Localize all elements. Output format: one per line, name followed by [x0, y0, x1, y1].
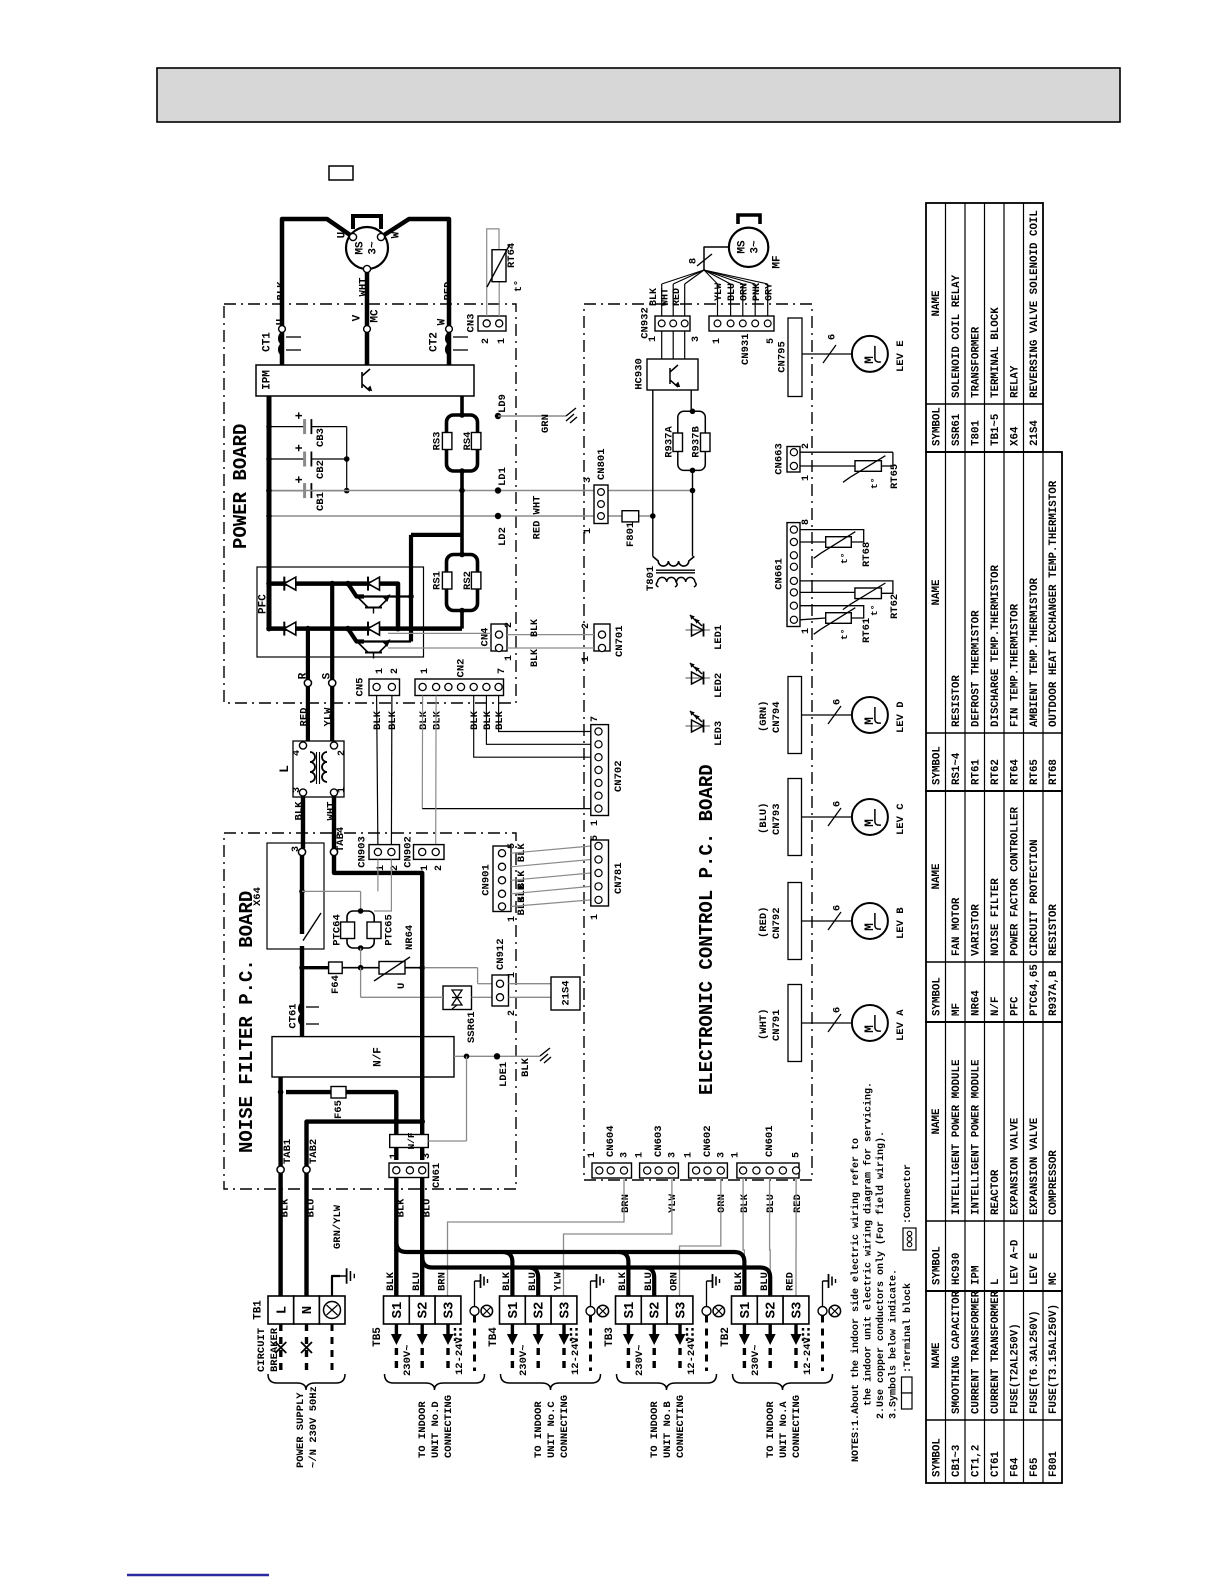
- svg-text:PTC64: PTC64: [331, 914, 343, 946]
- svg-text:R937B: R937B: [690, 426, 702, 458]
- svg-text:TB4: TB4: [488, 1327, 500, 1347]
- svg-text:CB1: CB1: [315, 492, 327, 511]
- svg-text:RT65: RT65: [1029, 759, 1041, 785]
- svg-text:3~: 3~: [368, 241, 380, 255]
- svg-text:UNIT No.D: UNIT No.D: [430, 1401, 442, 1458]
- svg-text:BLK: BLK: [432, 710, 444, 730]
- svg-text:MC: MC: [1048, 1272, 1060, 1285]
- svg-text:INTELLIGENT POWER MODULE: INTELLIGENT POWER MODULE: [951, 1059, 963, 1215]
- svg-text:CN902: CN902: [402, 836, 414, 868]
- svg-text:POWER FACTOR CONTROLLER: POWER FACTOR CONTROLLER: [1009, 806, 1021, 956]
- svg-text:N: N: [300, 1306, 316, 1314]
- svg-text:3: 3: [620, 1152, 631, 1158]
- svg-text:8: 8: [687, 258, 699, 264]
- svg-text:12-24V: 12-24V: [570, 1336, 582, 1375]
- svg-text:NOISE FILTER: NOISE FILTER: [990, 878, 1002, 956]
- svg-text:2.Use copper conductors only (: 2.Use copper conductors only (For field …: [875, 1131, 887, 1419]
- svg-text:6: 6: [831, 699, 843, 705]
- svg-text:YLW: YLW: [553, 1271, 565, 1291]
- svg-text:t°: t°: [869, 478, 880, 489]
- svg-text:RT68: RT68: [861, 542, 873, 567]
- svg-text:SYMBOL: SYMBOL: [931, 746, 943, 785]
- svg-text:BLU: BLU: [411, 1272, 423, 1291]
- svg-text:NAME: NAME: [931, 290, 943, 316]
- svg-text:21S4: 21S4: [1029, 420, 1041, 446]
- svg-text:SSR61: SSR61: [951, 413, 963, 446]
- svg-text:ORN: ORN: [740, 283, 751, 301]
- svg-text:V: V: [352, 314, 364, 321]
- svg-text:CN794: CN794: [771, 701, 783, 733]
- svg-text:IPM: IPM: [262, 370, 274, 390]
- svg-text:1: 1: [590, 820, 601, 826]
- svg-text:TERMINAL BLOCK: TERMINAL BLOCK: [990, 307, 1002, 398]
- svg-text:7: 7: [497, 668, 508, 674]
- svg-text:YLW: YLW: [714, 283, 725, 301]
- svg-text:F64: F64: [330, 975, 342, 994]
- svg-text:RED: RED: [672, 288, 683, 306]
- svg-text:LD2: LD2: [497, 527, 509, 546]
- svg-text:+: +: [292, 476, 307, 484]
- svg-text:CT2: CT2: [429, 332, 441, 352]
- svg-text:BLK: BLK: [372, 710, 384, 730]
- svg-text:6: 6: [831, 905, 843, 911]
- svg-text:RT61: RT61: [970, 759, 982, 785]
- svg-text:1: 1: [590, 914, 601, 920]
- svg-text:PFC: PFC: [258, 594, 270, 614]
- svg-text:F65: F65: [333, 1100, 345, 1119]
- svg-text:CN602: CN602: [702, 1125, 714, 1157]
- svg-text:S1: S1: [390, 1302, 406, 1319]
- svg-text:MF: MF: [951, 1003, 963, 1016]
- svg-text:S3: S3: [557, 1302, 573, 1319]
- svg-text:BLK: BLK: [494, 710, 506, 730]
- svg-text:CURRENT TRANSFORMER: CURRENT TRANSFORMER: [990, 1290, 1002, 1414]
- svg-text:TB3: TB3: [604, 1327, 616, 1347]
- svg-text:YLW: YLW: [322, 707, 334, 727]
- svg-text:CN702: CN702: [613, 760, 625, 792]
- svg-text:W: W: [391, 231, 403, 238]
- svg-text:POWER SUPPLY: POWER SUPPLY: [295, 1392, 307, 1468]
- svg-text:ORN: ORN: [669, 1272, 681, 1291]
- svg-text:X64: X64: [252, 887, 264, 906]
- svg-text:BLK: BLK: [649, 288, 660, 306]
- svg-text:FAN MOTOR: FAN MOTOR: [951, 897, 963, 956]
- svg-text:(RED): (RED): [758, 906, 770, 938]
- svg-text:TRANSFORMER: TRANSFORMER: [970, 326, 982, 398]
- svg-text:3~: 3~: [750, 240, 762, 254]
- svg-text:U: U: [396, 983, 408, 989]
- svg-text:TB5: TB5: [372, 1327, 384, 1347]
- svg-text:FIN TEMP.THERMISTOR: FIN TEMP.THERMISTOR: [1009, 603, 1021, 727]
- svg-text:SYMBOL: SYMBOL: [931, 977, 943, 1016]
- svg-text:LED1: LED1: [713, 625, 725, 650]
- svg-text:~/N 230V 50Hz: ~/N 230V 50Hz: [308, 1386, 320, 1468]
- svg-text:RT62: RT62: [990, 759, 1002, 785]
- svg-text:NAME: NAME: [931, 863, 943, 889]
- svg-text:FUSE(T6.3AL250V): FUSE(T6.3AL250V): [1029, 1310, 1041, 1414]
- svg-text:RT62: RT62: [889, 594, 901, 619]
- svg-text:2: 2: [434, 865, 445, 871]
- svg-text:CN792: CN792: [771, 907, 783, 939]
- svg-text:SYMBOL: SYMBOL: [931, 1246, 943, 1285]
- svg-text:GRN/YLW: GRN/YLW: [332, 1204, 344, 1249]
- svg-text:LEV E: LEV E: [895, 340, 907, 372]
- svg-text:NAME: NAME: [931, 1342, 943, 1368]
- svg-text:5: 5: [590, 835, 601, 841]
- svg-text:3: 3: [583, 477, 594, 483]
- svg-text:CN2: CN2: [455, 659, 467, 678]
- svg-text:CONNECTING: CONNECTING: [559, 1395, 571, 1458]
- svg-text:FUSE(T3.15AL250V): FUSE(T3.15AL250V): [1048, 1304, 1060, 1414]
- svg-text:TB2: TB2: [720, 1327, 732, 1347]
- svg-text:EXPANSION VALVE: EXPANSION VALVE: [1029, 1117, 1041, 1215]
- svg-text:1: 1: [684, 1152, 695, 1158]
- svg-text:CN781: CN781: [613, 862, 625, 894]
- svg-text:CN931: CN931: [740, 333, 752, 365]
- svg-text:U: U: [337, 232, 349, 239]
- svg-text:3: 3: [667, 1152, 678, 1158]
- svg-text:BRN: BRN: [437, 1272, 449, 1291]
- svg-text:RT65: RT65: [889, 464, 901, 489]
- svg-text:S3: S3: [789, 1302, 805, 1319]
- svg-text:1: 1: [507, 916, 518, 922]
- svg-text:FUSE(T2AL250V): FUSE(T2AL250V): [1009, 1323, 1021, 1414]
- svg-text:CIRCUIT PROTECTION: CIRCUIT PROTECTION: [1029, 839, 1041, 956]
- svg-text:LED2: LED2: [713, 673, 725, 698]
- svg-text:VARISTOR: VARISTOR: [970, 904, 982, 956]
- svg-text:1: 1: [635, 1152, 646, 1158]
- svg-text:N/F: N/F: [406, 1132, 417, 1149]
- svg-text:CN901: CN901: [480, 864, 492, 896]
- svg-text:TO INDOOR: TO INDOOR: [649, 1401, 661, 1458]
- svg-text:NAME: NAME: [931, 579, 943, 605]
- svg-text:LD1: LD1: [497, 467, 509, 486]
- svg-text:t°: t°: [839, 629, 850, 640]
- svg-text:L: L: [277, 765, 292, 773]
- svg-text:NR64: NR64: [404, 925, 416, 950]
- svg-text:PTC64,65: PTC64,65: [1029, 964, 1041, 1016]
- svg-text:TO INDOOR: TO INDOOR: [533, 1401, 545, 1458]
- svg-text:RS1~4: RS1~4: [951, 752, 963, 785]
- svg-text:CN4: CN4: [479, 628, 491, 647]
- svg-text:SMOOTHING CAPACITOR: SMOOTHING CAPACITOR: [951, 1290, 963, 1414]
- svg-text:CN5: CN5: [354, 678, 366, 697]
- svg-text:1: 1: [420, 668, 431, 674]
- svg-text:UNIT No.B: UNIT No.B: [662, 1401, 674, 1458]
- svg-text:F65: F65: [1029, 1458, 1041, 1477]
- svg-text:F801: F801: [1048, 1451, 1060, 1477]
- svg-text:INTELLIGENT POWER MODULE: INTELLIGENT POWER MODULE: [970, 1059, 982, 1215]
- svg-text:6: 6: [831, 801, 843, 807]
- svg-text:CB1~3: CB1~3: [951, 1445, 963, 1477]
- svg-text:2: 2: [581, 623, 592, 629]
- svg-text:t°: t°: [839, 553, 850, 564]
- svg-text:SYMBOL: SYMBOL: [931, 407, 943, 446]
- svg-text:CT1: CT1: [262, 332, 274, 352]
- svg-text:(GRN): (GRN): [758, 700, 770, 732]
- svg-text:U: U: [276, 319, 288, 326]
- svg-text:1: 1: [587, 1152, 598, 1158]
- svg-text:BLU: BLU: [765, 1194, 777, 1213]
- svg-text:1: 1: [389, 1153, 400, 1159]
- svg-text:DEFROST THERMISTOR: DEFROST THERMISTOR: [970, 610, 982, 727]
- svg-text:S1: S1: [622, 1302, 638, 1319]
- svg-text:BLU: BLU: [305, 1199, 317, 1218]
- svg-text:RED: RED: [792, 1194, 804, 1213]
- svg-text:TO INDOOR: TO INDOOR: [417, 1401, 429, 1458]
- svg-text:BLU: BLU: [759, 1272, 771, 1291]
- svg-text:TAB1: TAB1: [282, 1139, 294, 1164]
- svg-text:S3: S3: [673, 1302, 689, 1319]
- svg-text:CN701: CN701: [614, 625, 626, 657]
- svg-text:CN801: CN801: [596, 448, 608, 480]
- svg-text:the indoor unit electric wirin: the indoor unit electric wiring diagram …: [863, 1082, 875, 1406]
- svg-text:12-24V: 12-24V: [454, 1336, 466, 1375]
- svg-text:REACTOR: REACTOR: [990, 1169, 1002, 1215]
- svg-text:TO INDOOR: TO INDOOR: [765, 1401, 777, 1458]
- svg-text:HC930: HC930: [951, 1253, 963, 1285]
- svg-text:S2: S2: [416, 1302, 432, 1319]
- svg-text:LEV B: LEV B: [895, 907, 907, 939]
- svg-text:1: 1: [801, 475, 812, 481]
- svg-text:RS4: RS4: [462, 432, 474, 451]
- svg-text:CB2: CB2: [315, 460, 327, 479]
- svg-text:MF: MF: [772, 255, 784, 268]
- svg-text:230V~: 230V~: [518, 1344, 530, 1376]
- svg-text:1: 1: [504, 655, 515, 661]
- svg-text:BLK: BLK: [385, 1271, 397, 1291]
- svg-text:230V~: 230V~: [402, 1344, 414, 1376]
- svg-text:BLU: BLU: [643, 1272, 655, 1291]
- svg-text:S1: S1: [506, 1302, 522, 1319]
- svg-text:HC930: HC930: [633, 358, 645, 390]
- svg-text:S: S: [322, 672, 334, 679]
- svg-text:CONNECTING: CONNECTING: [443, 1395, 455, 1458]
- svg-text::Terminal block: :Terminal block: [902, 1283, 914, 1373]
- svg-text:BLK: BLK: [530, 649, 541, 667]
- svg-text:RT64: RT64: [1009, 759, 1021, 785]
- svg-text:1: 1: [801, 628, 812, 634]
- svg-text:CT61: CT61: [990, 1451, 1002, 1477]
- svg-text:RS2: RS2: [462, 571, 474, 590]
- svg-text:POWER BOARD: POWER BOARD: [230, 424, 252, 549]
- svg-text:BLK: BLK: [733, 1271, 745, 1291]
- svg-text:2: 2: [337, 750, 348, 756]
- svg-text:CURRENT TRANSFORMER: CURRENT TRANSFORMER: [970, 1290, 982, 1414]
- svg-text:BLK: BLK: [418, 710, 430, 730]
- svg-text:CN932: CN932: [639, 307, 651, 339]
- svg-text:BLK: BLK: [520, 1057, 532, 1077]
- svg-text:MS: MS: [355, 241, 367, 255]
- svg-text:TAB2: TAB2: [308, 1139, 320, 1164]
- svg-text:CIRCUIT: CIRCUIT: [256, 1328, 268, 1372]
- svg-text:1: 1: [337, 787, 348, 793]
- svg-text:NR64: NR64: [970, 990, 982, 1016]
- svg-text:2: 2: [507, 1010, 518, 1016]
- svg-text:t°: t°: [513, 280, 525, 292]
- svg-text:CT1,2: CT1,2: [970, 1445, 982, 1477]
- svg-text:LD9: LD9: [497, 394, 509, 413]
- svg-text:LEV D: LEV D: [895, 701, 907, 733]
- svg-text:1: 1: [375, 668, 386, 674]
- svg-text:SSR61: SSR61: [466, 1011, 478, 1043]
- svg-text:RESISTOR: RESISTOR: [1048, 904, 1060, 956]
- svg-text:AMBIENT TEMP.THERMISTOR: AMBIENT TEMP.THERMISTOR: [1029, 577, 1041, 727]
- svg-text:3: 3: [292, 787, 303, 793]
- svg-text:1: 1: [581, 656, 592, 662]
- svg-text:CN601: CN601: [764, 1125, 776, 1157]
- svg-text:BLK: BLK: [739, 1193, 751, 1213]
- svg-text:ORN: ORN: [716, 1194, 728, 1213]
- svg-text:RELAY: RELAY: [1009, 365, 1021, 398]
- svg-text:T801: T801: [970, 420, 982, 446]
- svg-text:2: 2: [504, 622, 515, 628]
- svg-text:L: L: [274, 1306, 290, 1314]
- svg-text:DISCHARGE TEMP.THERMISTOR: DISCHARGE TEMP.THERMISTOR: [990, 564, 1002, 727]
- svg-text:WHT: WHT: [531, 496, 543, 515]
- svg-text:RT64: RT64: [506, 243, 518, 268]
- svg-text:R: R: [298, 672, 310, 679]
- svg-text:BLK: BLK: [482, 710, 494, 730]
- svg-text:t°: t°: [869, 605, 880, 616]
- svg-text:UNIT No.C: UNIT No.C: [546, 1401, 558, 1458]
- svg-text:YLW: YLW: [667, 1193, 679, 1213]
- svg-text:RED: RED: [442, 282, 454, 301]
- svg-text:BLK: BLK: [530, 619, 541, 637]
- svg-text:GRY: GRY: [765, 283, 776, 301]
- svg-text:RS3: RS3: [431, 432, 443, 451]
- svg-text:RED: RED: [785, 1272, 797, 1291]
- svg-text:CN912: CN912: [495, 938, 507, 970]
- svg-text:3: 3: [422, 1153, 433, 1159]
- svg-text:T801: T801: [645, 566, 657, 591]
- svg-text:CN663: CN663: [773, 443, 785, 475]
- svg-text:6: 6: [826, 334, 838, 340]
- svg-text:CN903: CN903: [356, 836, 368, 868]
- svg-text:R937A: R937A: [663, 426, 675, 458]
- svg-text:BLK: BLK: [275, 281, 287, 301]
- svg-text:NOISE FILTER P.C. BOARD: NOISE FILTER P.C. BOARD: [236, 891, 258, 1153]
- svg-text:4: 4: [292, 750, 303, 756]
- svg-text:LEV C: LEV C: [895, 803, 907, 835]
- svg-text:BLK: BLK: [387, 710, 399, 730]
- svg-text:(BLU): (BLU): [758, 802, 770, 834]
- svg-text:S3: S3: [441, 1302, 457, 1319]
- svg-text:TAB4: TAB4: [335, 827, 347, 852]
- svg-text:7: 7: [590, 716, 601, 722]
- svg-text:N/F: N/F: [373, 1047, 385, 1067]
- svg-text:PFC: PFC: [1009, 996, 1021, 1016]
- svg-text:5: 5: [792, 1152, 803, 1158]
- svg-text:F64: F64: [1009, 1457, 1021, 1477]
- svg-text:PNK: PNK: [752, 283, 763, 301]
- svg-text:CB3: CB3: [315, 428, 327, 447]
- svg-text:WHT: WHT: [661, 288, 672, 306]
- svg-text:EXPANSION VALVE: EXPANSION VALVE: [1009, 1117, 1021, 1215]
- svg-text:TB1~5: TB1~5: [990, 414, 1002, 446]
- svg-text:TB1: TB1: [253, 1300, 265, 1320]
- svg-text:BLK: BLK: [501, 1271, 513, 1291]
- svg-text:NAME: NAME: [931, 1108, 943, 1134]
- svg-text:CN791: CN791: [771, 1009, 783, 1041]
- svg-text:ELECTRONIC CONTROL P.C. BOARD: ELECTRONIC CONTROL P.C. BOARD: [696, 764, 718, 1095]
- svg-text:L: L: [990, 1279, 1002, 1285]
- svg-text:S2: S2: [764, 1302, 780, 1319]
- svg-text:MS: MS: [737, 240, 749, 254]
- svg-text:S2: S2: [648, 1302, 664, 1319]
- svg-text:CN661: CN661: [773, 558, 785, 590]
- svg-text:CT61: CT61: [287, 1003, 299, 1028]
- svg-text:SOLENOID COIL RELAY: SOLENOID COIL RELAY: [951, 274, 963, 398]
- svg-text:(WHT): (WHT): [758, 1008, 770, 1040]
- svg-text:UNIT No.A: UNIT No.A: [778, 1401, 790, 1458]
- svg-text:3.Symbols below indicate.: 3.Symbols below indicate.: [888, 1269, 900, 1419]
- svg-text:LEV A: LEV A: [895, 1009, 907, 1041]
- svg-text:BLK: BLK: [617, 1271, 629, 1291]
- svg-text:R937A,B: R937A,B: [1048, 970, 1060, 1016]
- svg-text:SYMBOL: SYMBOL: [931, 1438, 943, 1477]
- svg-text:1: 1: [507, 972, 518, 978]
- svg-text:GRN: GRN: [540, 414, 552, 433]
- svg-text:RT68: RT68: [1048, 759, 1060, 785]
- svg-text:W: W: [437, 318, 449, 325]
- svg-text:F801: F801: [625, 522, 637, 547]
- svg-text:BLK: BLK: [469, 710, 481, 730]
- svg-text:3: 3: [716, 1152, 727, 1158]
- svg-text:3: 3: [291, 846, 302, 852]
- svg-text:N/F: N/F: [990, 997, 1002, 1016]
- svg-text::Connector: :Connector: [903, 1164, 914, 1224]
- svg-text:2: 2: [481, 338, 492, 344]
- svg-text:RS1: RS1: [431, 571, 443, 590]
- svg-text:CN3: CN3: [465, 314, 477, 333]
- svg-text:LED3: LED3: [713, 721, 725, 746]
- svg-text:X64: X64: [1009, 426, 1021, 446]
- svg-text:CONNECTING: CONNECTING: [675, 1395, 687, 1458]
- svg-text:LEV A~D: LEV A~D: [1009, 1239, 1021, 1285]
- svg-text:1: 1: [583, 528, 594, 534]
- svg-text:CN61: CN61: [431, 1163, 443, 1188]
- svg-text:CN603: CN603: [653, 1125, 665, 1157]
- svg-text:LDE1: LDE1: [498, 1062, 510, 1087]
- svg-text:RESISTOR: RESISTOR: [951, 675, 963, 727]
- svg-text:3: 3: [691, 336, 702, 342]
- svg-text:MC: MC: [370, 309, 382, 323]
- svg-text:1: 1: [648, 336, 659, 342]
- svg-text:1: 1: [497, 338, 508, 344]
- svg-text:PTC65: PTC65: [383, 914, 395, 946]
- svg-text:S2: S2: [532, 1302, 548, 1319]
- svg-text:1: 1: [712, 338, 723, 344]
- svg-text:BRN: BRN: [620, 1194, 632, 1213]
- svg-text:2: 2: [801, 443, 812, 449]
- svg-text:RED: RED: [298, 708, 310, 727]
- svg-text:CN793: CN793: [771, 803, 783, 835]
- svg-text:2: 2: [390, 668, 401, 674]
- svg-text:CN604: CN604: [605, 1125, 617, 1157]
- svg-text:RED: RED: [531, 521, 543, 540]
- svg-text:BLK: BLK: [279, 1198, 291, 1218]
- svg-text:+: +: [292, 444, 307, 452]
- svg-text:6: 6: [831, 1007, 843, 1013]
- svg-text:NOTES:1.About the indoor side: NOTES:1.About the indoor side electric w…: [850, 1138, 862, 1462]
- svg-text:12-24V: 12-24V: [686, 1336, 698, 1375]
- svg-text:1: 1: [731, 1152, 742, 1158]
- svg-text:230V~: 230V~: [750, 1344, 762, 1376]
- svg-text:12-24V: 12-24V: [802, 1336, 814, 1375]
- svg-text:BLU: BLU: [727, 283, 738, 301]
- svg-text:21S4: 21S4: [560, 980, 572, 1005]
